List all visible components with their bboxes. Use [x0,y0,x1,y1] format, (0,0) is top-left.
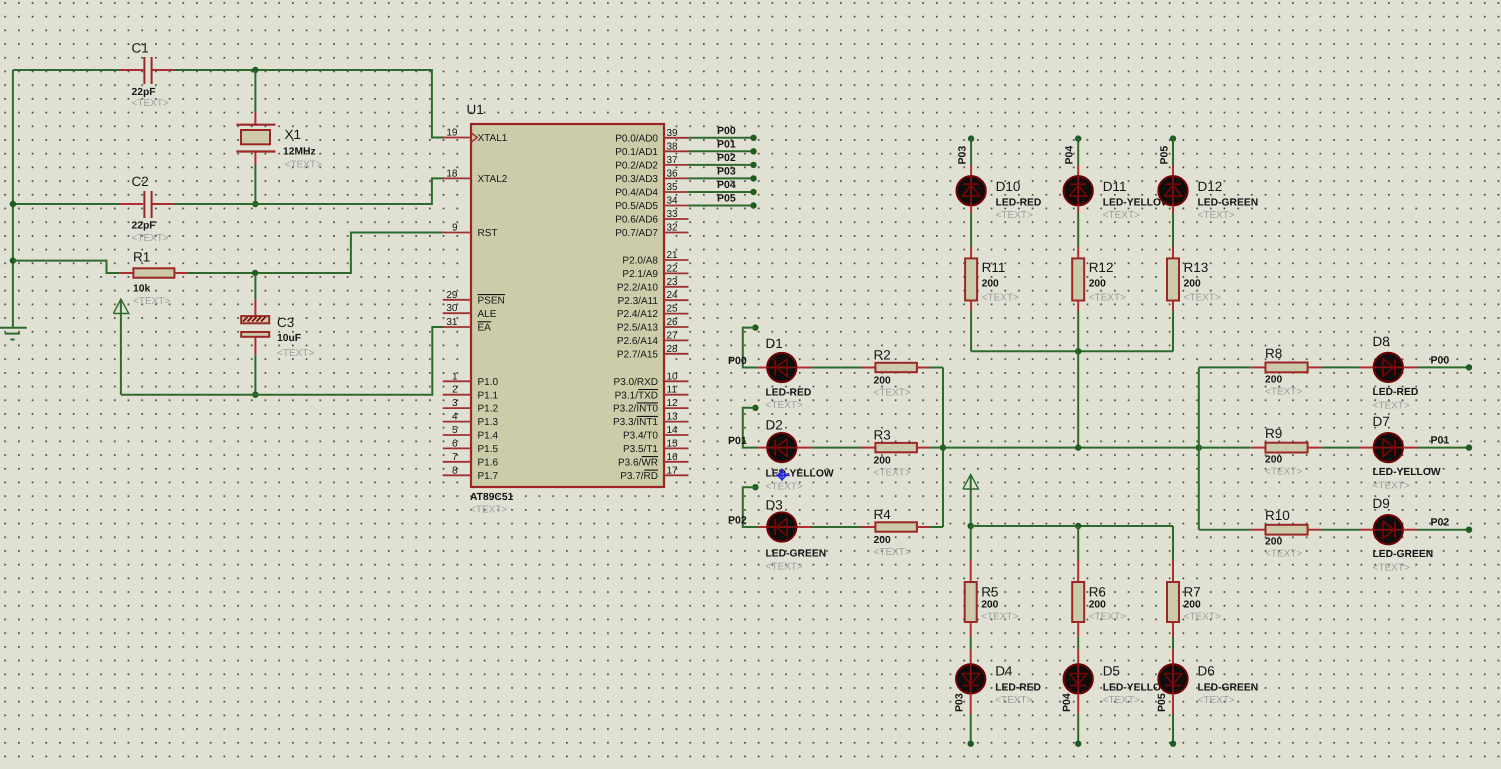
svg-text:D6: D6 [1198,664,1215,679]
pin 39 P0.0/AD0 of U1 [664,137,689,139]
LED D3 [757,526,766,528]
node terminal dot hook P00 [752,324,758,330]
svg-text:R5: R5 [981,584,998,599]
resistor R3 [862,447,876,449]
pin 28 P2.7/A15 of U1 [664,353,689,355]
svg-text:D1: D1 [766,336,783,351]
LED D12 [1158,176,1187,205]
wire LED D3 to resistor R4 [797,526,812,528]
wire R1 left jog [13,261,120,273]
pin 6 P1.5 of U1 [443,447,471,449]
svg-text:P0.6/AD6: P0.6/AD6 [615,215,658,226]
svg-text:P2.0/A8: P2.0/A8 [622,256,658,267]
wire long rail y447.6 to right group [943,447,1199,449]
wire net P02 from pin 37 [689,164,754,166]
svg-text:EA: EA [478,323,492,334]
svg-text:LED-RED: LED-RED [1373,387,1419,398]
wire bottom feed bus y526 [971,525,1173,527]
node terminal dot hook P01 [752,405,758,411]
svg-text:P3.4/T0: P3.4/T0 [623,431,658,442]
svg-text:<TEXT>: <TEXT> [132,98,169,109]
svg-text:27: 27 [667,330,679,341]
capacitor C1 [120,69,143,71]
svg-text:P04: P04 [1061,693,1073,712]
svg-text:12: 12 [667,398,679,409]
svg-text:R13: R13 [1184,260,1209,275]
svg-text:25: 25 [667,304,679,315]
svg-text:<TEXT>: <TEXT> [1265,467,1302,478]
pin 9 RST of U1 [443,232,471,234]
pin 22 P2.1/A9 of U1 [664,272,689,274]
svg-text:D7: D7 [1373,414,1390,429]
wire net P05 from pin 34 [689,205,754,207]
svg-text:P02: P02 [717,152,736,164]
power arrow terminal near R1 [113,299,128,314]
svg-text:P0.2/AD2: P0.2/AD2 [615,161,658,172]
svg-text:P1.2: P1.2 [478,404,499,415]
svg-text:D10: D10 [996,179,1021,194]
svg-text:LED-GREEN: LED-GREEN [1373,549,1434,560]
svg-text:P2.5/A13: P2.5/A13 [617,323,659,334]
svg-text:R3: R3 [874,428,891,443]
svg-text:10uF: 10uF [277,333,301,344]
svg-text:D12: D12 [1198,179,1223,194]
wire resistor R3 to right bus [930,447,943,449]
svg-text:X1: X1 [285,127,302,142]
wire LED D10 to resistor R11 [970,206,972,213]
cursor origin marker (blue) [776,468,790,480]
resistor R5 [965,582,977,622]
svg-text:P05: P05 [1156,693,1168,712]
svg-text:<TEXT>: <TEXT> [1198,695,1235,706]
svg-text:23: 23 [667,277,679,288]
wire net P01 from pin 38 [689,150,754,152]
pin 8 P1.7 of U1 [443,474,471,476]
svg-text:<TEXT>: <TEXT> [1198,210,1235,221]
resistor R11 [965,258,977,300]
svg-text:P3.7/RD: P3.7/RD [620,471,658,482]
pin 13 P3.3/INT1 of U1 [664,421,689,423]
svg-text:P2.7/A15: P2.7/A15 [617,349,659,360]
svg-text:36: 36 [667,168,679,179]
wire LED D2 to resistor R3 [797,447,812,449]
svg-text:ALE: ALE [478,309,497,320]
svg-text:2: 2 [452,385,458,396]
svg-text:1: 1 [452,371,458,382]
svg-text:R6: R6 [1089,584,1106,599]
svg-text:26: 26 [667,317,679,328]
svg-text:D2: D2 [766,417,783,432]
resistor R13 [1167,258,1179,300]
svg-text:4: 4 [452,412,458,423]
svg-text:<TEXT>: <TEXT> [1265,386,1302,397]
wire right bus to resistor R10 [1199,529,1251,531]
pin 1 P1.0 of U1 [443,380,471,382]
capacitor C3 polarized top plate [241,316,269,323]
pin 25 P2.4/A12 of U1 [664,313,689,315]
wire LED D11 to resistor R12 [1077,206,1079,213]
svg-text:37: 37 [667,155,679,166]
node terminal dot net P04 top [1075,135,1081,141]
wire resistor R13 to bottom bus [1172,301,1174,312]
svg-text:R2: R2 [874,348,891,363]
svg-text:R10: R10 [1265,508,1290,523]
svg-text:P04: P04 [717,179,736,191]
op chip U1 AT89C51 body [471,124,664,487]
svg-text:29: 29 [446,290,458,301]
pin 38 P0.1/AD1 of U1 [664,150,689,152]
svg-text:P1.5: P1.5 [478,444,499,455]
svg-text:21: 21 [667,250,679,261]
svg-text:U1: U1 [467,102,484,117]
resistor R6 [1072,582,1084,622]
svg-text:<TEXT>: <TEXT> [1184,611,1221,622]
node junction crystal-top on y70 rail [252,67,258,73]
LED D8 [1374,353,1403,382]
svg-text:<TEXT>: <TEXT> [132,233,169,244]
svg-text:P1.0: P1.0 [478,377,499,388]
svg-text:200: 200 [981,599,998,610]
node terminal dot net P04 bottom [1075,741,1081,747]
LED D5 [1064,664,1093,693]
pin 21 P2.0/A8 of U1 [664,259,689,261]
wire LED D1 to resistor R2 [797,367,812,369]
pin 26 P2.5/A13 of U1 [664,326,689,328]
svg-text:<TEXT>: <TEXT> [1103,210,1140,221]
svg-text:P2.6/A14: P2.6/A14 [617,336,659,347]
pin 18 XTAL2 of U1 [443,177,471,179]
wire top rail y70 from left vertical to XTAL1 corner [13,69,120,71]
svg-text:P0.7/AD7: P0.7/AD7 [615,228,658,239]
svg-text:D8: D8 [1373,334,1390,349]
wire LED D9 to terminal net P02 [1403,529,1417,531]
svg-text:R1: R1 [133,250,150,265]
svg-text:C2: C2 [132,174,149,189]
wire LED D12 to resistor R13 [1172,206,1174,213]
svg-text:P0.5/AD5: P0.5/AD5 [615,201,658,212]
node junction C3 / bottom rail [252,392,258,398]
svg-text:P04: P04 [1064,146,1076,165]
node terminal dot net P03 bottom [968,741,974,747]
svg-text:<TEXT>: <TEXT> [1103,695,1140,706]
svg-text:24: 24 [667,290,679,301]
wire bottom rail y394.7 to EA [121,327,444,395]
LED D7 [1374,433,1403,462]
node terminal dot net P01 right [1466,444,1472,450]
svg-text:35: 35 [667,182,679,193]
resistor R12 [1072,258,1084,300]
wire LED D8 to terminal net P00 [1403,366,1417,368]
svg-text:R11: R11 [982,260,1006,275]
svg-text:33: 33 [667,209,679,220]
svg-text:<TEXT>: <TEXT> [285,160,322,171]
svg-text:LED-RED: LED-RED [995,683,1041,694]
ground symbol [0,327,27,329]
svg-text:3: 3 [452,398,458,409]
wire R1 to RST [188,233,443,274]
wire top-group bottom bus y351.3 [971,350,1173,352]
svg-text:D5: D5 [1103,664,1120,679]
node terminal dot hook P02 [752,484,758,490]
svg-text:R7: R7 [1184,584,1201,599]
svg-text:C3: C3 [277,315,294,330]
pin 4 P1.3 of U1 [443,421,471,423]
pin 17 P3.7/RD of U1 [664,474,689,476]
svg-text:16: 16 [667,452,679,463]
svg-text:P3.2/INT0: P3.2/INT0 [613,404,658,415]
svg-text:6: 6 [452,438,458,449]
node junction feed bus / R6 [1075,523,1081,529]
wire net P00 from pin 39 [689,137,754,139]
LED D9 [1374,515,1403,544]
svg-text:9: 9 [452,223,458,234]
svg-text:200: 200 [874,376,891,387]
node junction crystal-bottom on y204 rail [252,201,258,207]
svg-text:RST: RST [478,228,498,239]
svg-text:34: 34 [667,196,679,207]
pin 14 P3.4/T0 of U1 [664,434,689,436]
svg-text:22: 22 [667,263,679,274]
pin 32 P0.7/AD7 of U1 [664,232,689,234]
svg-text:200: 200 [874,535,891,546]
svg-text:P00: P00 [728,355,747,367]
node junction left rail / R1 rail [10,257,16,263]
pin 29 PSEN of U1 [443,299,471,301]
node junction middle bus / long rail [940,444,946,450]
node terminal dot net P00 [750,135,756,141]
resistor R2 [862,367,876,369]
node terminal dot net P02 [750,162,756,168]
svg-text:<TEXT>: <TEXT> [1373,400,1410,411]
LED D1 [757,367,766,369]
pin 30 ALE of U1 [443,312,471,314]
pin 36 P0.3/AD3 of U1 [664,177,689,179]
wire hook P01 to LED D2 [743,408,757,448]
svg-text:P2.1/A9: P2.1/A9 [622,269,658,280]
svg-text:<TEXT>: <TEXT> [766,482,803,493]
svg-text:P1.4: P1.4 [478,431,499,442]
svg-text:D3: D3 [766,498,783,513]
LED D4 [956,664,985,693]
wire net P03 from pin 36 [689,177,754,179]
crystal X1 [236,124,275,126]
svg-text:200: 200 [1089,279,1106,290]
svg-text:10: 10 [667,371,679,382]
pin 11 P3.1/TXD of U1 [664,394,689,396]
svg-text:AT89C51: AT89C51 [470,492,514,503]
svg-text:<TEXT>: <TEXT> [766,562,803,573]
svg-text:<TEXT>: <TEXT> [1373,481,1410,492]
svg-text:32: 32 [667,223,679,234]
wire resistor R8 to LED D8 [1322,366,1359,368]
svg-text:P0.3/AD3: P0.3/AD3 [615,174,658,185]
svg-text:LED-GREEN: LED-GREEN [1198,683,1259,694]
wire arrow terminal to feed bus [970,475,972,527]
svg-text:P00: P00 [1431,354,1450,366]
svg-text:30: 30 [446,303,458,314]
svg-text:28: 28 [667,344,679,355]
node terminal dot net P03 top [968,135,974,141]
wire right bus to resistor R8 [1199,366,1251,368]
wire resistor R4 to right bus [930,526,943,528]
svg-text:P03: P03 [954,693,966,712]
svg-text:11: 11 [667,385,678,396]
wire hook P02 to LED D3 [743,487,757,527]
svg-text:LED-RED: LED-RED [996,198,1042,209]
svg-text:13: 13 [667,412,679,423]
pin 15 P3.5/T1 of U1 [664,447,689,449]
svg-text:P3.6/WR: P3.6/WR [618,457,658,468]
svg-text:200: 200 [1265,455,1282,466]
svg-text:P05: P05 [1159,146,1171,165]
wire right bus to resistor R9 [1199,447,1251,449]
svg-text:P2.4/A12: P2.4/A12 [617,309,659,320]
node junction R1 rail / C3 branch [252,270,258,276]
svg-text:200: 200 [874,456,891,467]
svg-text:<TEXT>: <TEXT> [996,210,1033,221]
resistor R7 [1167,582,1179,622]
node terminal dot net P03 [750,175,756,181]
svg-text:P3.5/T1: P3.5/T1 [623,444,658,455]
resistor R10 [1251,529,1266,531]
wire right bus vertical x1198.8 [1198,367,1200,529]
resistor R8 [1251,366,1266,368]
LED D10 [957,176,986,205]
wire terminal to LED D12 [1172,139,1174,165]
pin 19 XTAL1 of U1 [443,137,471,139]
svg-text:D9: D9 [1373,496,1390,511]
svg-text:C1: C1 [132,41,149,56]
svg-text:P03: P03 [717,165,736,177]
svg-text:LED-YELLOW: LED-YELLOW [766,469,834,480]
capacitor C2 [120,203,143,205]
svg-text:18: 18 [446,168,458,179]
resistor R4 [862,526,876,528]
node terminal dot net P05 top [1170,135,1176,141]
wire feed bus to resistor R6 [1077,526,1079,560]
svg-text:P3.3/INT1: P3.3/INT1 [613,417,658,428]
wire resistor R5 to LED D4 [970,622,972,637]
svg-text:P1.1: P1.1 [478,390,499,401]
svg-text:P0.1/AD1: P0.1/AD1 [615,147,658,158]
wire top bus down to long rail [1077,351,1079,447]
svg-text:14: 14 [667,425,679,436]
svg-text:31: 31 [446,317,458,328]
svg-text:12MHz: 12MHz [283,147,316,158]
svg-text:200: 200 [1184,599,1201,610]
svg-text:200: 200 [1089,599,1106,610]
pin 5 P1.4 of U1 [443,434,471,436]
capacitor C3 bottom plate [241,332,269,337]
LED D6 [1158,664,1187,693]
pin 31 EA of U1 [443,326,471,328]
svg-text:<TEXT>: <TEXT> [1265,549,1302,560]
wire resistor R9 to LED D7 [1322,447,1359,449]
wire resistor R2 to right bus [930,367,943,369]
wire LED D7 to terminal net P01 [1403,447,1417,449]
svg-text:200: 200 [982,279,999,290]
wire resistor R6 to LED D5 [1077,622,1079,637]
wire crystal bottom lead [254,152,256,166]
svg-text:LED-GREEN: LED-GREEN [1198,198,1259,209]
wire terminal to LED D10 [970,139,972,165]
pin 33 P0.6/AD6 of U1 [664,218,689,220]
svg-text:P00: P00 [717,125,736,137]
wire left vertical rail x12.9 [12,70,14,328]
svg-text:<TEXT>: <TEXT> [874,547,911,558]
svg-text:XTAL2: XTAL2 [478,174,508,185]
wire C3 top lead [254,273,256,300]
wire C2 rail y204 to XTAL2 [13,203,120,205]
svg-text:LED-RED: LED-RED [766,388,812,399]
svg-text:P05: P05 [717,193,736,205]
svg-text:<TEXT>: <TEXT> [1373,563,1410,574]
svg-text:P2.3/A11: P2.3/A11 [618,296,659,307]
pin 27 P2.6/A14 of U1 [664,339,689,341]
svg-text:P02: P02 [728,515,747,527]
wire feed bus to resistor R7 [1172,526,1174,560]
svg-text:200: 200 [1265,374,1282,385]
pin 2 P1.1 of U1 [443,394,471,396]
svg-text:D4: D4 [995,664,1013,679]
svg-text:<TEXT>: <TEXT> [1089,611,1126,622]
wire resistor R7 to LED D6 [1172,622,1174,637]
node terminal dot net P02 right [1466,527,1472,533]
svg-text:<TEXT>: <TEXT> [995,695,1032,706]
wire hook P00 to LED D1 [743,328,757,368]
svg-text:39: 39 [667,128,679,139]
wire C3 bottom lead [254,337,256,355]
svg-text:<TEXT>: <TEXT> [277,348,314,359]
LED D11 [1064,176,1093,205]
wire LED D4 to terminal [970,694,972,714]
wire terminal to LED D11 [1077,139,1079,165]
wire LED D6 to terminal [1172,694,1174,714]
svg-text:LED-GREEN: LED-GREEN [766,549,827,560]
node junction left rail / C2 rail [10,201,16,207]
svg-text:P01: P01 [717,138,736,150]
wire feed bus to resistor R5 [970,526,972,560]
node junction right bus 4-way [1196,444,1202,450]
svg-text:P3.1/TXD: P3.1/TXD [615,390,658,401]
svg-text:R12: R12 [1089,260,1114,275]
svg-text:R4: R4 [874,507,892,522]
power arrow terminal bottom group [963,475,979,490]
svg-text:<TEXT>: <TEXT> [982,293,1019,304]
svg-text:22pF: 22pF [132,221,156,232]
svg-text:LED-YELLOW: LED-YELLOW [1373,467,1441,478]
pin 16 P3.6/WR of U1 [664,461,689,463]
svg-text:<TEXT>: <TEXT> [874,388,911,399]
svg-text:R9: R9 [1265,426,1282,441]
node terminal dot net P05 [750,202,756,208]
wire resistor R10 to LED D9 [1322,529,1359,531]
svg-text:<TEXT>: <TEXT> [133,296,170,307]
svg-text:22pF: 22pF [132,87,156,98]
svg-text:7: 7 [452,452,458,463]
svg-text:<TEXT>: <TEXT> [1184,293,1221,304]
node terminal dot net P04 [750,189,756,195]
resistor R1 [120,272,134,274]
svg-text:P3.0/RXD: P3.0/RXD [614,377,658,388]
svg-text:<TEXT>: <TEXT> [874,468,911,479]
svg-text:15: 15 [667,438,679,449]
svg-text:P0.0/AD0: P0.0/AD0 [615,133,658,144]
svg-text:10k: 10k [133,284,150,295]
svg-text:R8: R8 [1265,346,1282,361]
svg-text:P01: P01 [1431,435,1450,447]
wire crystal top lead [254,70,256,112]
